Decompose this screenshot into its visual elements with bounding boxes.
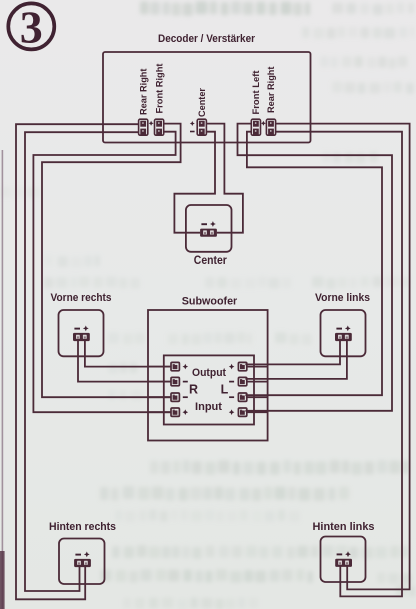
front left minus — [336, 328, 342, 330]
wire Rear Right(right) - to Hinten links — [276, 132, 402, 597]
svg-text:Decoder / Verstärker: Decoder / Verstärker — [158, 33, 256, 45]
rear right speaker box — [59, 539, 105, 585]
wire Center + — [207, 124, 243, 233]
svg-text:Input: Input — [195, 401, 222, 413]
svg-text:Subwoofer: Subwoofer — [182, 296, 238, 308]
wire front left speaker + to subwoofer output — [245, 341, 347, 379]
svg-text:Front Left: Front Left — [251, 71, 261, 115]
rear left minus — [337, 553, 343, 555]
subwoofer left terminal row2 — [171, 377, 179, 385]
circled number 3 badge — [8, 2, 54, 53]
subwoofer sign right row3 — [229, 396, 234, 398]
decoder box U1 — [103, 52, 311, 143]
svg-text:Center: Center — [197, 88, 207, 117]
svg-text:3: 3 — [20, 2, 43, 53]
front left terminal — [335, 333, 352, 341]
subwoofer sign right row1 — [229, 364, 235, 370]
subwoofer sign left row3 — [183, 396, 188, 398]
wire Front Right + to subwoofer input — [42, 124, 181, 398]
minus mark center terminal — [190, 131, 195, 133]
wire front right speaker - to subwoofer output — [78, 341, 171, 382]
wire front right speaker + to subwoofer output — [85, 341, 171, 367]
subwoofer terminal stubs — [148, 366, 171, 368]
wire Rear Right + to Hinten rechts — [16, 124, 138, 599]
rear left speaker box — [321, 537, 366, 583]
scan page left edge line — [1, 150, 3, 609]
svg-text:Output: Output — [192, 367, 226, 379]
terminal Front Right — [155, 119, 164, 135]
svg-text:Hinten rechts: Hinten rechts — [49, 521, 116, 533]
rear left terminal — [335, 559, 352, 567]
center speaker terminal — [200, 229, 217, 237]
front right minus — [74, 328, 80, 330]
rear right minus — [75, 554, 81, 556]
wire Rear Right(right) + to Hinten links — [276, 124, 410, 590]
terminal Front Left — [251, 119, 260, 135]
plus mark between left pair — [149, 121, 154, 126]
rear right terminal — [74, 559, 91, 567]
subwoofer outer box — [148, 310, 268, 441]
scan page bottom-left dark bar — [0, 551, 5, 609]
subwoofer right terminal row4 — [238, 408, 246, 416]
plus mark between right pair — [261, 121, 266, 126]
svg-text:Rear Right: Rear Right — [266, 67, 276, 114]
subwoofer right terminal row2 — [238, 377, 246, 385]
subwoofer left terminal row1 — [171, 362, 179, 370]
subwoofer right terminal row3 — [238, 393, 246, 401]
front right speaker box — [59, 310, 104, 356]
wire Center - — [174, 132, 215, 233]
terminal Center — [197, 119, 206, 135]
wire Rear Right - to Hinten rechts — [25, 132, 138, 591]
front right plus — [83, 326, 89, 332]
svg-text:Vorne links: Vorne links — [315, 292, 370, 304]
svg-text:Hinten links: Hinten links — [313, 521, 375, 533]
front left speaker box — [321, 310, 366, 356]
subwoofer sign right row4 — [229, 409, 235, 415]
svg-text:L: L — [221, 383, 229, 397]
center speaker minus — [201, 223, 207, 225]
wire front left speaker - to subwoofer output — [245, 341, 340, 365]
rear left plus — [345, 551, 351, 557]
subwoofer sign left row1 — [183, 364, 189, 370]
wire Front Left - to subwoofer — [245, 132, 382, 396]
front right terminal — [73, 333, 90, 341]
subwoofer right terminal row1 — [238, 362, 246, 370]
subwoofer sign left row2 — [183, 381, 188, 383]
subwoofer left terminal row4 — [171, 408, 179, 416]
center speaker plus — [210, 221, 216, 227]
subwoofer inner box — [164, 355, 254, 424]
terminal Rear Right (right) — [266, 119, 275, 135]
rear right plus — [84, 552, 90, 558]
subwoofer left terminal row3 — [171, 393, 179, 401]
plus mark center terminal — [190, 121, 195, 126]
front left plus — [345, 326, 351, 332]
center speaker box — [186, 205, 232, 252]
terminal Rear Right (left) — [139, 119, 148, 135]
svg-text:Front Right: Front Right — [154, 64, 164, 114]
svg-text:Rear Right: Rear Right — [138, 69, 148, 116]
subwoofer sign right row2 — [229, 381, 234, 383]
svg-text:Vorne rechts: Vorne rechts — [51, 292, 112, 304]
wire Front Left + to subwoofer — [238, 124, 393, 411]
wire Front Right - to subwoofer input — [33, 132, 175, 413]
svg-text:Center: Center — [194, 253, 227, 267]
svg-text:R: R — [189, 383, 198, 397]
subwoofer sign left row4 — [183, 409, 189, 415]
